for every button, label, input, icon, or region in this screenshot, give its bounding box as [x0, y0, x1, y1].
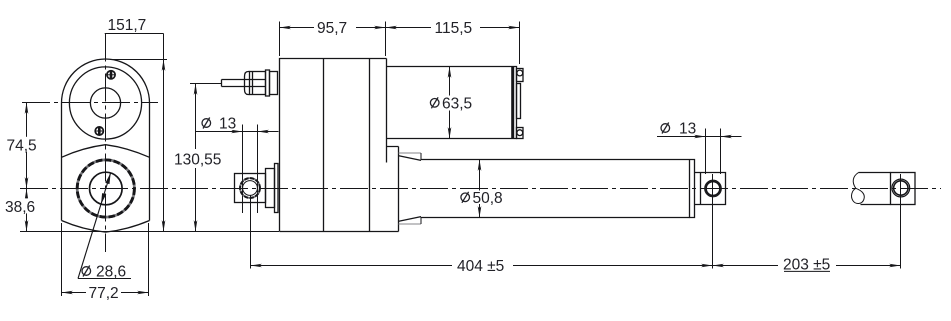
- dim 74,5: [5, 103, 37, 189]
- gland ring2: [270, 72, 278, 95]
- extended rod: [859, 173, 891, 205]
- leader arrow top: [105, 173, 110, 184]
- collar slant top: [399, 156, 421, 161]
- dim 115,5: [386, 20, 520, 64]
- dim dia 63,5: [430, 67, 472, 139]
- gland ring1: [266, 70, 270, 96]
- collar slant bottom: [399, 217, 421, 222]
- motor brush cap bottom: [517, 128, 524, 139]
- dim 151,7: [105, 17, 167, 232]
- leader line dia 28,6: [78, 173, 111, 279]
- front view hex shoulder top: [62, 145, 150, 158]
- motor brush cap top: [517, 69, 524, 82]
- dim 95,7: [280, 20, 386, 56]
- cable gland nut: [250, 72, 266, 95]
- extended clevis block: [891, 173, 916, 205]
- svg-text:115,5: 115,5: [435, 20, 473, 37]
- main box outline: [280, 59, 399, 232]
- front view housing outline: [62, 59, 150, 221]
- motor body: [387, 67, 517, 139]
- svg-text:63,5: 63,5: [442, 95, 472, 112]
- dim 203: [713, 174, 901, 274]
- dim 77,2: [62, 223, 149, 302]
- motor terminal strip: [517, 84, 521, 119]
- svg-text:13: 13: [679, 121, 696, 138]
- screw top: [106, 70, 115, 79]
- svg-text:38,6: 38,6: [5, 199, 35, 216]
- collar boot top: [399, 152, 422, 154]
- front view hex shoulder bottom: [62, 221, 150, 233]
- outer tube: [421, 160, 690, 218]
- rear clevis block: [235, 174, 266, 203]
- svg-text:151,7: 151,7: [108, 17, 147, 34]
- svg-text:13: 13: [219, 116, 236, 133]
- label dia 28,6: [78, 264, 131, 281]
- svg-text:74,5: 74,5: [7, 138, 37, 155]
- front view motor circle: [69, 67, 141, 139]
- dim 38,6: [4, 189, 35, 232]
- rear clevis hole: [240, 178, 260, 198]
- dim dia 13 rear: [196, 114, 279, 213]
- front view shaft boss circle: [90, 88, 120, 118]
- tube end cap: [690, 160, 695, 218]
- rear flange ring1: [266, 169, 275, 208]
- svg-text:95,7: 95,7: [317, 20, 347, 37]
- dim dia 13 front: [657, 121, 742, 175]
- front clevis block: [695, 173, 726, 205]
- svg-text:50,8: 50,8: [473, 190, 503, 207]
- centerline top hole horizontal: [22, 102, 158, 104]
- front clevis hole: [705, 180, 722, 197]
- svg-text:77,2: 77,2: [89, 285, 119, 302]
- box internal line 2: [369, 59, 371, 232]
- collar boot bottom: [399, 223, 422, 225]
- baseline extension bottom: [20, 231, 279, 233]
- cable gland nose: [245, 72, 250, 95]
- rod break curl: [852, 173, 865, 204]
- dim dia 50,8: [461, 160, 503, 218]
- centerline main axis: [20, 188, 941, 190]
- rear flange ring2: [275, 164, 279, 213]
- front view tube thread circle: [77, 160, 134, 217]
- dim 130,55: [174, 84, 222, 232]
- leader arrow bottom: [101, 193, 106, 204]
- extended clevis hole: [892, 179, 910, 197]
- snout front: [387, 147, 399, 232]
- dim 404: [251, 174, 713, 275]
- svg-text:404 ±5: 404 ±5: [457, 258, 504, 275]
- box internal line 1: [323, 59, 325, 232]
- front clevis joint line: [700, 173, 702, 205]
- gland nut facet: [252, 72, 254, 95]
- centerline front view vertical: [105, 34, 107, 253]
- screw bottom: [95, 127, 104, 136]
- svg-text:130,55: 130,55: [174, 152, 221, 169]
- svg-text:28,6: 28,6: [96, 264, 126, 281]
- cable: [222, 80, 266, 87]
- front view piston rod circle: [90, 172, 123, 205]
- motor end seam: [511, 67, 514, 139]
